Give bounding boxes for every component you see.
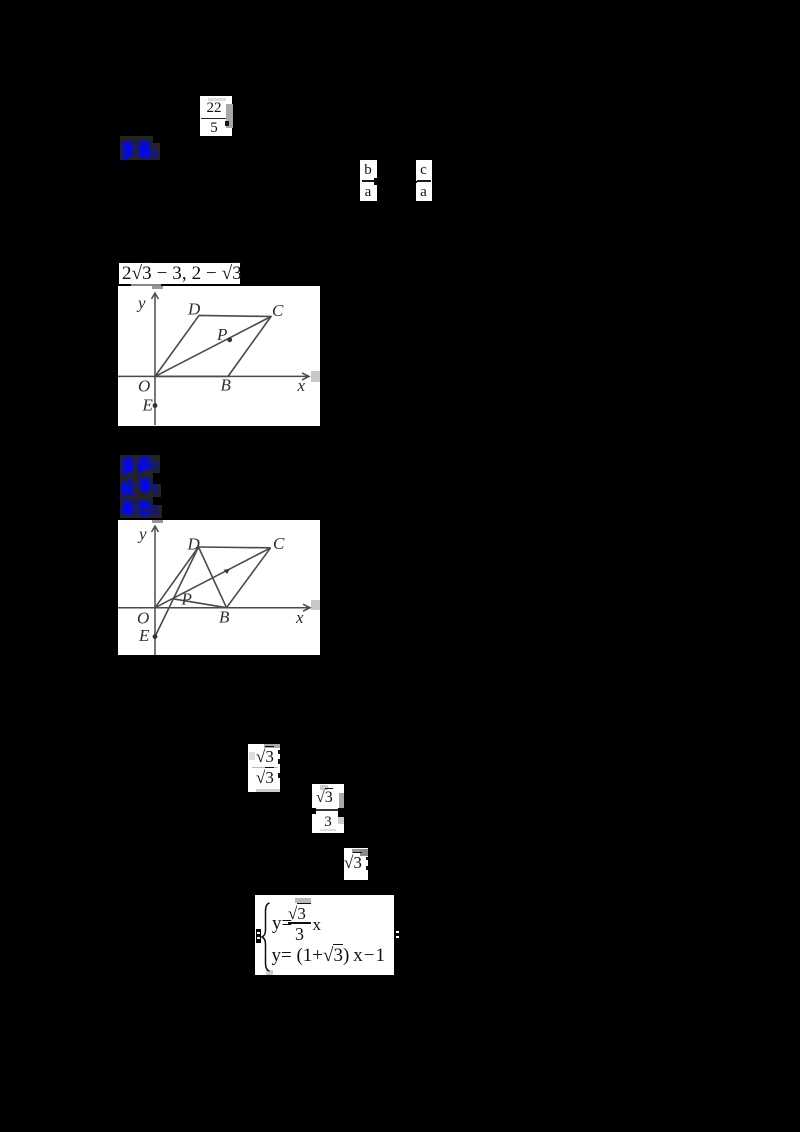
svg-text:B: B xyxy=(219,607,230,626)
svg-text:D: D xyxy=(187,300,201,319)
svg-text:E: E xyxy=(138,626,150,645)
svg-text:P: P xyxy=(181,589,192,608)
svg-text:B: B xyxy=(221,376,232,395)
svg-text:x: x xyxy=(295,608,304,627)
svg-text:x: x xyxy=(297,376,306,395)
svg-text:C: C xyxy=(272,301,284,320)
svg-text:C: C xyxy=(273,534,285,553)
svg-text:P: P xyxy=(216,325,227,344)
svg-text:O: O xyxy=(137,608,149,627)
svg-text:O: O xyxy=(138,377,150,396)
svg-text:y: y xyxy=(137,524,147,543)
svg-text:E: E xyxy=(142,396,154,415)
svg-text:y: y xyxy=(136,294,146,313)
svg-text:D: D xyxy=(187,534,201,553)
